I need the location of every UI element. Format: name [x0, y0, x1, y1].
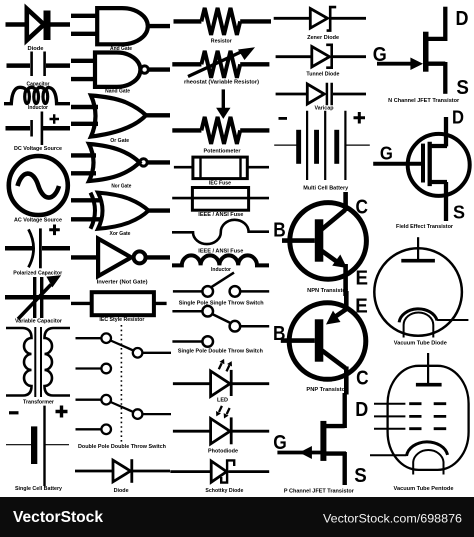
svg-text:IEC Fuse: IEC Fuse	[209, 180, 231, 186]
svg-text:G: G	[373, 44, 387, 66]
svg-text:Tunnel Diode: Tunnel Diode	[306, 72, 339, 78]
svg-text:S: S	[354, 465, 367, 487]
svg-text:D: D	[452, 107, 464, 128]
svg-text:Potentiometer: Potentiometer	[204, 149, 242, 155]
svg-text:Capacitor: Capacitor	[27, 81, 51, 87]
svg-text:Inverter (Not Gate): Inverter (Not Gate)	[97, 279, 148, 285]
svg-text:DC Voltage Source: DC Voltage Source	[14, 146, 62, 152]
svg-text:Nand Gate: Nand Gate	[105, 89, 130, 95]
svg-text:rheostat (Variable Resistor): rheostat (Variable Resistor)	[184, 80, 259, 86]
svg-text:Photodiode: Photodiode	[208, 448, 238, 454]
svg-text:Single Cell Battery: Single Cell Battery	[15, 486, 63, 492]
svg-text:E: E	[355, 296, 368, 318]
svg-text:G: G	[380, 143, 393, 164]
svg-text:Inductor: Inductor	[28, 105, 49, 111]
svg-text:Double Pole Double Throw Switc: Double Pole Double Throw Switch	[78, 444, 167, 450]
svg-text:Diode: Diode	[114, 488, 129, 494]
svg-text:B: B	[273, 219, 286, 241]
svg-text:Vacuum Tube Pentode: Vacuum Tube Pentode	[394, 486, 454, 492]
svg-text:VectorStock.com/698876: VectorStock.com/698876	[323, 512, 462, 526]
svg-text:Schottky Diode: Schottky Diode	[205, 488, 243, 494]
svg-text:Field Effect Transistor: Field Effect Transistor	[396, 224, 454, 230]
svg-text:Single Pole Single Throw Switc: Single Pole Single Throw Switch	[179, 300, 265, 306]
svg-text:IEEE / ANSI Fuse: IEEE / ANSI Fuse	[198, 212, 243, 218]
svg-text:Xor Gate: Xor Gate	[110, 231, 131, 237]
svg-text:Multi Cell Battery: Multi Cell Battery	[303, 186, 349, 192]
svg-text:Inductor: Inductor	[211, 267, 232, 273]
svg-text:B: B	[273, 323, 286, 345]
svg-text:VectorStock: VectorStock	[13, 509, 103, 526]
svg-text:Variable Capacitor: Variable Capacitor	[15, 319, 63, 325]
svg-text:IEEE / ANSI Fuse: IEEE / ANSI Fuse	[198, 249, 243, 255]
svg-text:D: D	[456, 8, 469, 30]
svg-text:S: S	[453, 202, 465, 223]
svg-text:Or Gate: Or Gate	[110, 138, 129, 144]
svg-text:Single Pole Double Throw Switc: Single Pole Double Throw Switch	[178, 349, 264, 355]
svg-text:C: C	[356, 367, 369, 389]
svg-text:S: S	[456, 77, 469, 99]
svg-text:Resistor: Resistor	[211, 39, 233, 45]
svg-text:LED: LED	[217, 398, 228, 404]
svg-text:Diode: Diode	[28, 46, 44, 52]
svg-text:D: D	[355, 399, 368, 421]
svg-text:NPN Transistor: NPN Transistor	[307, 288, 349, 294]
svg-text:Polarized Capacitor: Polarized Capacitor	[13, 271, 63, 277]
svg-text:G: G	[273, 432, 287, 454]
svg-text:PNP Transistor: PNP Transistor	[306, 387, 348, 393]
svg-text:And Gate: And Gate	[110, 46, 132, 52]
svg-text:Nor Gate: Nor Gate	[111, 184, 131, 190]
svg-text:E: E	[356, 267, 369, 289]
svg-text:Varicap: Varicap	[315, 105, 335, 111]
svg-text:IEC Style Resistor: IEC Style Resistor	[99, 317, 145, 323]
svg-text:P Channel JFET Transistor: P Channel JFET Transistor	[284, 488, 355, 494]
svg-text:Zener Diode: Zener Diode	[307, 35, 339, 41]
svg-text:N Channel JFET Transistor: N Channel JFET Transistor	[388, 98, 460, 104]
svg-text:Transformer: Transformer	[23, 400, 55, 406]
svg-text:Vacuum Tube Diode: Vacuum Tube Diode	[394, 341, 447, 347]
svg-text:AC Voltage Source: AC Voltage Source	[14, 218, 62, 224]
svg-text:C: C	[356, 196, 369, 218]
